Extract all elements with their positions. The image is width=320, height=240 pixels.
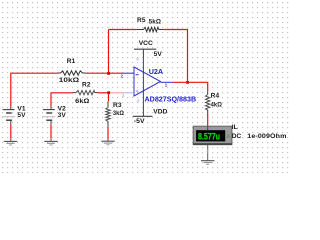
svg-text:3kΩ: 3kΩ bbox=[113, 110, 125, 117]
power VCC 5V bbox=[134, 40, 162, 59]
battery V1 bbox=[2, 105, 26, 124]
wire R3 to ground bbox=[107, 127, 109, 140]
svg-text:R1: R1 bbox=[67, 58, 76, 65]
svg-text:5kΩ: 5kΩ bbox=[149, 19, 162, 26]
ground (under V1) bbox=[4, 139, 17, 145]
wire feedback vertical bbox=[108, 30, 110, 74]
svg-text:R4: R4 bbox=[211, 92, 220, 99]
svg-text:10kΩ: 10kΩ bbox=[59, 77, 80, 84]
wire to R5 left bbox=[109, 29, 137, 31]
power VDD -5V bbox=[133, 103, 168, 125]
junction (feedback / output) bbox=[186, 81, 189, 84]
svg-text:5V: 5V bbox=[17, 112, 26, 119]
wire R4 to probe bbox=[207, 114, 209, 127]
op-amp U2A AD827SQ/883B bbox=[121, 57, 197, 104]
ground (under V2) bbox=[44, 139, 57, 145]
svg-text:8.577u: 8.577u bbox=[198, 130, 220, 141]
current probe IL bbox=[193, 124, 286, 145]
svg-text:6kΩ: 6kΩ bbox=[75, 98, 90, 105]
ground (under R3) bbox=[101, 140, 114, 145]
wire junction to non-inverting input (pale) bbox=[110, 92, 124, 94]
wire R1 to inverting input bbox=[85, 72, 123, 74]
svg-text:5V: 5V bbox=[154, 51, 163, 58]
resistor R5 5kOhm bbox=[136, 17, 163, 32]
svg-text:R5: R5 bbox=[137, 17, 146, 24]
svg-text:4kΩ: 4kΩ bbox=[211, 102, 223, 109]
ground (under probe) bbox=[201, 161, 214, 165]
svg-text:R2: R2 bbox=[82, 81, 91, 88]
wire R5 right down to output bbox=[163, 30, 187, 83]
junction (non-inverting input / R3) bbox=[107, 91, 110, 94]
resistor R1 10kOhm bbox=[58, 58, 86, 84]
svg-text:DC: DC bbox=[232, 133, 242, 140]
svg-text:U2A: U2A bbox=[149, 67, 163, 76]
svg-text:VCC: VCC bbox=[139, 40, 153, 47]
wire V2 bottom to ground bbox=[50, 125, 52, 139]
wire R2 to junction bbox=[98, 92, 111, 94]
svg-text:IL: IL bbox=[232, 124, 238, 131]
junction (inverting input / feedback) bbox=[107, 72, 110, 75]
wire probe to ground bbox=[207, 145, 209, 161]
wire junction down to R3 bbox=[108, 93, 110, 102]
wire V1 to R1 bbox=[11, 73, 58, 106]
svg-text:A: A bbox=[227, 134, 231, 140]
svg-text:3V: 3V bbox=[58, 112, 67, 119]
wire V1 bottom to ground bbox=[10, 125, 12, 139]
battery V2 bbox=[42, 105, 66, 124]
resistor R4 4kOhm bbox=[206, 91, 223, 115]
svg-text:AD827SQ/883B: AD827SQ/883B bbox=[145, 94, 197, 103]
svg-text:R3: R3 bbox=[113, 102, 122, 109]
wire V2 to R2 bbox=[51, 93, 73, 107]
svg-text:1e-009Ohm: 1e-009Ohm bbox=[247, 133, 286, 140]
svg-text:-5V: -5V bbox=[134, 118, 145, 125]
svg-text:VDD: VDD bbox=[153, 108, 167, 115]
wire output to R4 bbox=[173, 82, 208, 90]
resistor R3 3kOhm bbox=[106, 102, 125, 127]
resistor R2 6kOhm bbox=[73, 81, 97, 105]
